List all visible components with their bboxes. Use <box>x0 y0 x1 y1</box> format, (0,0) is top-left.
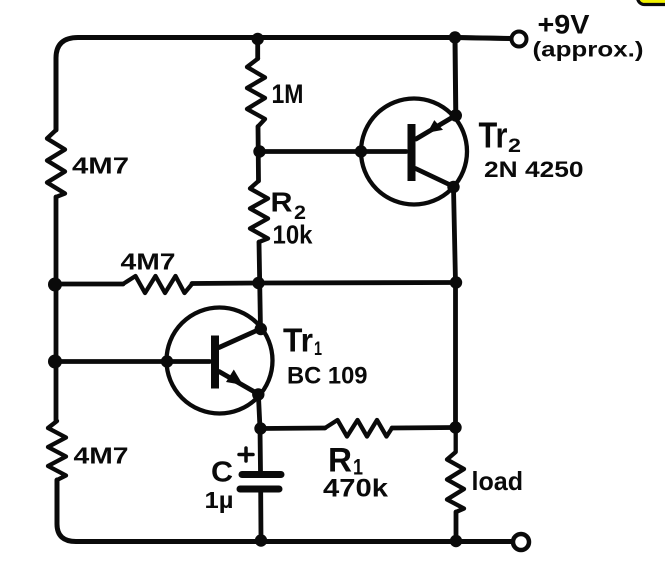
wire Tr2 base row <box>260 149 407 154</box>
transistor Tr1 emitter lead <box>219 372 258 394</box>
wire vertical A from capacitor to bottom rail <box>258 492 263 541</box>
transistor Tr1 collector lead <box>219 329 261 348</box>
wire Tr1 base row <box>56 359 210 364</box>
wire bottom rail <box>57 480 512 542</box>
junction dot node below 1M <box>253 145 265 157</box>
wire vertical A above 1M <box>255 38 260 59</box>
wire left vertical middle <box>54 197 59 421</box>
wire 4M7 middle row left part <box>56 282 123 287</box>
resistor 1M (vertical) <box>247 59 265 127</box>
wire vertical B from load to bottom rail <box>454 512 459 541</box>
junction dot bottom rail A <box>255 534 267 546</box>
resistor R2 10k (vertical) <box>250 181 268 242</box>
wire vertical A from R2 to Tr1 collector <box>259 242 261 329</box>
yellow tab top right corner <box>638 0 665 5</box>
junction dot R1 right <box>449 421 461 433</box>
wire R1 row right part <box>392 425 456 430</box>
junction dot row2 x vertical A <box>252 277 264 289</box>
resistor 4M7 (bottom left, vertical) <box>48 421 66 480</box>
terminal bottom output circle <box>513 534 529 550</box>
wire 4M7 middle row right part <box>192 283 456 284</box>
wire vertical A from Tr1 emitter to capacitor <box>258 395 260 472</box>
resistor 4M7 (top left, vertical) <box>47 130 65 197</box>
capacitor plus sign <box>239 448 253 461</box>
transistor Tr2 collector lead <box>416 169 454 187</box>
transistor Tr2 base bar <box>408 124 416 181</box>
transistor Tr1 emitter arrowhead (NPN) <box>226 370 243 386</box>
junction dot Tr2 collector <box>447 181 459 193</box>
wire vertical B from top rail to Tr2 emitter <box>453 38 459 116</box>
transistor Tr1 base bar <box>211 336 219 389</box>
wire top rail (+9V rail) <box>56 38 511 131</box>
capacitor C positive plate <box>242 471 281 478</box>
resistor R1 470k (horizontal) <box>325 420 392 437</box>
junction dot bottom rail B <box>450 535 462 547</box>
junction dot top of 1M <box>252 33 264 45</box>
wire R1 row left part <box>261 426 326 431</box>
transistor Tr2 body circle <box>361 99 467 205</box>
junction dot R1 left <box>254 422 266 434</box>
transistor Tr1 body circle <box>167 308 273 414</box>
wire +9V terminal lead <box>455 38 511 39</box>
junction dot row2 x vertical B <box>450 276 462 288</box>
junction dot Tr2 emitter <box>450 109 462 121</box>
capacitor C negative plate <box>240 486 279 493</box>
terminal +9V circle <box>512 32 527 47</box>
junction dot Tr1 emitter <box>252 388 264 400</box>
resistor 4M7 (middle, horizontal) <box>123 276 192 293</box>
junction dot left rail row2 <box>48 278 62 292</box>
junction dot top right rail <box>449 31 461 43</box>
junction dot Tr2 base at circle edge <box>355 145 367 157</box>
wire vertical A between 1M and R2 <box>256 127 261 182</box>
transistor Tr2 emitter arrowhead (PNP) <box>427 120 443 133</box>
transistor Tr2 emitter lead <box>416 116 456 140</box>
junction dot Tr1 base at circle edge <box>161 355 173 367</box>
wire vertical B from Tr2 collector down to R1 node <box>454 188 456 428</box>
junction dot Tr1 collector <box>255 323 267 335</box>
resistor load (vertical) <box>447 428 464 513</box>
wire bottom terminal lead <box>456 539 512 544</box>
junction dot left rail row3 <box>48 355 62 369</box>
